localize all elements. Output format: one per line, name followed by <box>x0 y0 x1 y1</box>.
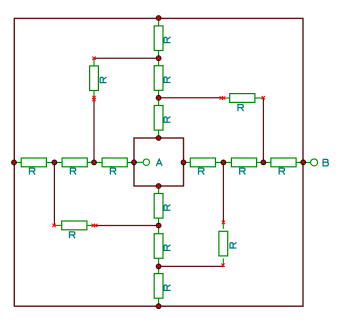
resistor R12 (lower-left horizontal) <box>62 221 87 238</box>
node A label <box>156 159 162 166</box>
wire: left vertical from bus down to R12 <box>53 162 55 225</box>
node: column junction 3 <box>156 223 161 228</box>
resistor R2 <box>62 158 87 175</box>
pin x: R12 right (double) <box>92 224 95 227</box>
lead: bus left segment <box>14 18 311 306</box>
resistor R9 (column top 3) <box>154 106 170 131</box>
lead: R10 pins <box>93 58 95 66</box>
resistor R6 <box>271 158 296 175</box>
wire: upper-right horizontal (column to R11) <box>159 97 223 99</box>
node: border left / bus <box>11 160 16 165</box>
wire: lower-right horizontal (column to R13 bottom) <box>159 265 223 267</box>
lead: column bottom segment <box>158 186 160 194</box>
resistor R14 (column bottom 1) <box>154 194 170 219</box>
node: bus junction 1 <box>52 160 57 165</box>
node: border right / bus (B) <box>301 160 306 165</box>
node: box top <box>156 135 161 140</box>
pin x: R13 bottom <box>221 264 224 267</box>
lead: R11 pins <box>222 97 230 99</box>
resistor R7 (column top 1) <box>154 26 170 51</box>
lead: bus right segment <box>184 161 191 163</box>
pin x: R10 top <box>92 57 95 60</box>
node: column junction 4 <box>156 264 161 269</box>
pin x: R10 bottom (double) <box>92 96 95 99</box>
node: bus junction 4 <box>261 160 266 165</box>
resistor R1 <box>21 158 46 175</box>
node A box <box>134 138 184 186</box>
resistor R8 (column top 2) <box>154 66 170 91</box>
resistor R13 (lower-right vertical) <box>219 231 237 256</box>
pin x: R11 right <box>262 96 265 99</box>
resistor R10 (upper-left vertical) <box>90 66 107 91</box>
wire: right vertical from bus down to R13 <box>222 162 224 222</box>
lead: terminal B <box>304 161 311 163</box>
terminal A circle <box>143 159 149 165</box>
terminal B circle <box>311 159 318 166</box>
pin x: R12 left <box>52 224 55 227</box>
wire: left vertical from R10 bottom to bus <box>93 98 95 162</box>
lead: column top segment <box>158 18 160 26</box>
node B label <box>323 159 328 166</box>
node: border bottom / column <box>156 304 161 309</box>
wire: upper-left horizontal (R10 top to column) <box>94 57 159 59</box>
node: column junction 1 <box>156 56 161 61</box>
resistor R3 <box>102 158 127 175</box>
pin x: R11 left (double) <box>220 96 223 99</box>
resistor R15 (column bottom 2) <box>154 234 170 259</box>
node: box bottom <box>156 183 161 188</box>
node: border top / column <box>156 15 161 20</box>
resistor R5 <box>231 158 256 175</box>
node: box right <box>181 160 186 165</box>
node: bus junction 3 <box>221 160 226 165</box>
lead: R13 pins <box>222 223 224 229</box>
resistor R4 <box>190 158 215 175</box>
wire: outer border loop <box>14 18 303 306</box>
wire: lower-left horizontal (R12 to column) <box>95 225 159 227</box>
lead: terminal A <box>134 161 143 163</box>
wire: right vertical from R11 to bus <box>262 98 264 163</box>
pin x: R13 top <box>222 221 225 224</box>
lead: R12 pins <box>54 224 62 226</box>
resistor R11 (upper-right horizontal) <box>230 94 255 112</box>
node: box left <box>131 160 136 165</box>
resistor R16 (column bottom 3) <box>154 274 170 299</box>
node: column junction 2 <box>156 95 161 100</box>
node: bus junction 2 <box>91 160 96 165</box>
